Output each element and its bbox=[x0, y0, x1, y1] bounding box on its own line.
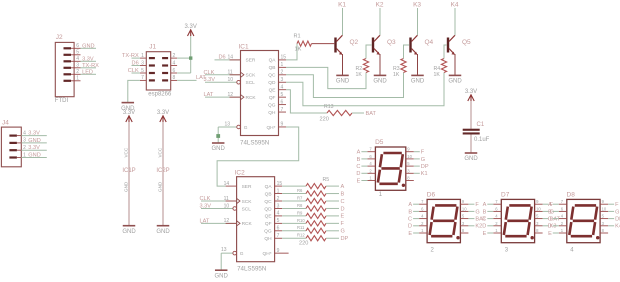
display D7 body bbox=[501, 199, 534, 242]
ground below IC2 bbox=[215, 270, 229, 279]
wire R8 to net D bbox=[326, 206, 345, 212]
svg-text:R6: R6 bbox=[297, 188, 303, 193]
svg-text:2: 2 bbox=[173, 53, 176, 59]
svg-text:6: 6 bbox=[277, 226, 280, 232]
display D7 pin B bbox=[483, 206, 502, 215]
svg-text:GND: GND bbox=[157, 181, 162, 192]
J2 pin 5 bbox=[74, 50, 80, 56]
svg-text:LAT: LAT bbox=[200, 218, 210, 224]
IC1 output pin 1 bbox=[279, 62, 287, 68]
net label K4 bbox=[451, 2, 459, 9]
IC2 output pin 2 bbox=[275, 196, 283, 202]
IC1 pin 11 SCK net CLK bbox=[204, 70, 241, 76]
svg-text:7: 7 bbox=[141, 75, 144, 81]
svg-text:A: A bbox=[357, 150, 361, 156]
svg-text:5: 5 bbox=[141, 68, 144, 74]
svg-text:D: D bbox=[548, 224, 552, 230]
wire IC2 QA to R5 bbox=[282, 185, 306, 187]
svg-text:GND: GND bbox=[82, 43, 94, 49]
display D8 pin right 8 bbox=[600, 228, 608, 233]
svg-text:A: A bbox=[408, 202, 412, 208]
svg-text:G: G bbox=[240, 251, 244, 257]
display D5 pin B bbox=[357, 154, 376, 163]
svg-text:11: 11 bbox=[228, 70, 233, 76]
svg-text:SCK: SCK bbox=[246, 73, 257, 79]
svg-text:QB: QB bbox=[265, 191, 272, 197]
svg-text:K1: K1 bbox=[338, 2, 346, 9]
resistor R7 220 bbox=[297, 195, 326, 203]
wire R4 to Q5 base bbox=[444, 45, 447, 59]
J1 pin 6 bbox=[171, 68, 177, 74]
svg-text:IC1P: IC1P bbox=[122, 168, 135, 174]
svg-text:C: C bbox=[548, 217, 552, 223]
svg-text:B: B bbox=[341, 191, 345, 197]
display D8 pin A bbox=[548, 199, 567, 208]
svg-text:F: F bbox=[421, 150, 425, 156]
IC1 output pin 3 bbox=[279, 77, 287, 83]
display D5 pin right G bbox=[406, 154, 425, 163]
svg-text:GND: GND bbox=[215, 273, 229, 279]
svg-text:QH*: QH* bbox=[266, 125, 275, 131]
header J1 esp8266 body bbox=[146, 52, 170, 90]
display D6 pin right 8 bbox=[460, 228, 468, 233]
svg-text:VCC: VCC bbox=[157, 147, 162, 157]
wire J1 pin7 to ground bbox=[128, 80, 140, 102]
svg-text:D6: D6 bbox=[132, 61, 139, 67]
svg-text:GND: GND bbox=[411, 79, 425, 85]
svg-text:4: 4 bbox=[23, 130, 26, 136]
ground at Q4 emitter bbox=[411, 75, 425, 84]
display D8 pin right F bbox=[600, 199, 619, 208]
wire collector Q4 to net K3 bbox=[417, 8, 419, 35]
svg-text:0.1uF: 0.1uF bbox=[474, 137, 490, 143]
svg-text:GND: GND bbox=[156, 229, 170, 235]
svg-text:E: E bbox=[341, 214, 345, 220]
svg-text:1K: 1K bbox=[295, 47, 302, 53]
svg-text:K2: K2 bbox=[376, 2, 384, 9]
power symbol IC2P supply 3.3V bbox=[157, 110, 169, 122]
J4 pin 4 net 3.3V bbox=[21, 130, 47, 136]
svg-text:10: 10 bbox=[228, 77, 234, 83]
svg-text:220: 220 bbox=[320, 116, 329, 122]
svg-text:220: 220 bbox=[299, 240, 308, 246]
svg-text:K3: K3 bbox=[413, 2, 421, 9]
display D7 value 3 bbox=[505, 248, 509, 254]
svg-text:3.3V: 3.3V bbox=[82, 56, 94, 62]
svg-text:Q5: Q5 bbox=[462, 39, 471, 46]
resistor R4 bbox=[434, 59, 447, 79]
svg-text:C1: C1 bbox=[477, 122, 485, 128]
svg-text:5: 5 bbox=[281, 92, 284, 98]
wire R6 to net B bbox=[326, 191, 345, 197]
svg-text:GND: GND bbox=[373, 79, 387, 85]
J1 pin 2 bbox=[171, 53, 177, 59]
svg-text:R11: R11 bbox=[297, 225, 305, 230]
IC2 pin 13 G enable bbox=[221, 247, 237, 255]
J1 pin 5 net CLK bbox=[128, 68, 146, 74]
display D5 pin right F bbox=[406, 147, 425, 156]
supply 3.3V above J1 bbox=[185, 24, 197, 36]
svg-text:CLK: CLK bbox=[128, 68, 139, 74]
capacitor C1 0.1uF bbox=[463, 101, 490, 153]
svg-text:1: 1 bbox=[141, 53, 144, 59]
J1 pin 1 net TX-RX bbox=[122, 53, 146, 59]
svg-text:K2: K2 bbox=[475, 224, 482, 230]
IC1 pin 12 RCK net LAT bbox=[204, 92, 241, 98]
IC1 pin 9 QH* bbox=[279, 122, 287, 128]
svg-text:A: A bbox=[341, 184, 345, 190]
svg-text:SER: SER bbox=[242, 184, 252, 190]
svg-text:D6: D6 bbox=[219, 55, 226, 61]
wire R13 to net BAT bbox=[352, 111, 377, 117]
svg-text:SCL: SCL bbox=[242, 206, 252, 212]
IC1 output pin 15 bbox=[279, 55, 287, 61]
svg-text:IC1: IC1 bbox=[239, 43, 250, 50]
wire IC1 QA to R1 bbox=[286, 44, 297, 60]
wire IC2 QH to R12 bbox=[282, 237, 306, 239]
svg-text:R9: R9 bbox=[297, 210, 303, 215]
net label K1 bbox=[338, 2, 346, 9]
net label K3 bbox=[413, 2, 421, 9]
wire collector Q3 to net K2 bbox=[379, 8, 381, 35]
svg-text:B: B bbox=[548, 209, 552, 215]
svg-text:C: C bbox=[341, 199, 345, 205]
svg-text:1K: 1K bbox=[393, 72, 400, 78]
wire collector Q5 to net K4 bbox=[454, 8, 456, 35]
svg-text:6: 6 bbox=[76, 43, 79, 49]
resistor R1 bbox=[294, 34, 312, 53]
connector J2 name bbox=[56, 34, 63, 41]
svg-text:R12: R12 bbox=[297, 233, 305, 238]
svg-text:SCK: SCK bbox=[242, 199, 253, 205]
resistor R9 220 bbox=[297, 210, 326, 218]
wire IC2 QB to R6 bbox=[282, 193, 306, 195]
J4 pin 2 net 3.3V bbox=[21, 145, 47, 151]
wire IC2 QD to R8 bbox=[282, 207, 306, 209]
svg-text:QA: QA bbox=[265, 184, 273, 190]
wire R5 to net A bbox=[326, 184, 345, 190]
svg-text:3.3V: 3.3V bbox=[204, 77, 216, 83]
display D5 body bbox=[375, 147, 405, 190]
IC IC1 value 74LS595N bbox=[240, 140, 269, 147]
svg-text:4: 4 bbox=[277, 211, 280, 217]
wire emitter Q5 to ground bbox=[454, 54, 456, 75]
svg-text:F: F bbox=[341, 221, 345, 227]
svg-text:RCK: RCK bbox=[246, 95, 257, 101]
IC IC1 name bbox=[239, 43, 250, 50]
IC1 output pin 5 bbox=[279, 92, 287, 98]
svg-text:E: E bbox=[483, 231, 487, 237]
display D7 pin E bbox=[483, 228, 502, 237]
svg-text:F: F bbox=[475, 202, 479, 208]
display D6 pin right F bbox=[460, 199, 479, 208]
svg-text:3.3V: 3.3V bbox=[28, 131, 40, 137]
svg-text:QF: QF bbox=[265, 221, 272, 227]
svg-text:G: G bbox=[244, 125, 248, 131]
IC1 pin 10 SCL net 3.3V bbox=[204, 77, 241, 84]
display D8 pin D bbox=[548, 221, 567, 230]
ground below IC1 bbox=[212, 143, 226, 152]
transistor Q5 bbox=[447, 35, 471, 55]
resistor stack value 220 bbox=[299, 240, 308, 246]
svg-text:LED: LED bbox=[82, 69, 93, 75]
svg-text:J1: J1 bbox=[149, 44, 156, 51]
svg-text:J2: J2 bbox=[56, 34, 63, 41]
IC2 output pin 4 bbox=[275, 211, 283, 217]
svg-text:3: 3 bbox=[76, 63, 79, 69]
svg-text:B: B bbox=[357, 157, 361, 163]
svg-text:IC2P: IC2P bbox=[156, 168, 169, 174]
svg-text:QH: QH bbox=[264, 236, 272, 242]
svg-text:R1: R1 bbox=[294, 34, 301, 40]
power symbol IC1P supply 3.3V bbox=[123, 110, 135, 122]
svg-text:esp8266: esp8266 bbox=[148, 92, 172, 98]
wire IC1 QH* to IC2 SER bbox=[217, 127, 299, 186]
display D6 pin A bbox=[408, 199, 427, 208]
svg-text:3: 3 bbox=[23, 138, 26, 144]
svg-text:QA: QA bbox=[269, 58, 277, 64]
svg-text:K1: K1 bbox=[421, 171, 428, 177]
wire IC1 G to ground bbox=[217, 127, 219, 143]
svg-text:10: 10 bbox=[224, 203, 230, 209]
display D7 pin right K3 bbox=[535, 221, 557, 230]
svg-text:2: 2 bbox=[76, 69, 79, 75]
J4 pin 1 net GND bbox=[21, 152, 47, 158]
IC1 output pin 7 bbox=[279, 107, 287, 113]
wire emitter Q3 to ground bbox=[379, 54, 381, 75]
svg-text:QF: QF bbox=[269, 95, 276, 101]
ground at Q5 emitter bbox=[448, 75, 462, 84]
wire IC2 QC to R7 bbox=[282, 200, 306, 202]
svg-text:3.3V: 3.3V bbox=[200, 203, 212, 209]
header J1 name bbox=[149, 44, 156, 51]
svg-text:1: 1 bbox=[277, 188, 280, 194]
svg-text:11: 11 bbox=[224, 196, 229, 202]
svg-text:G: G bbox=[341, 229, 345, 235]
svg-text:7: 7 bbox=[281, 107, 284, 113]
display D5 value 1 bbox=[379, 192, 383, 198]
svg-text:TX-RX: TX-RX bbox=[82, 63, 99, 69]
svg-text:K4: K4 bbox=[451, 2, 459, 9]
J2 pin 4 net 3.3V bbox=[74, 56, 96, 62]
svg-text:5: 5 bbox=[277, 218, 280, 224]
svg-text:QB: QB bbox=[269, 65, 276, 71]
svg-text:QD: QD bbox=[268, 80, 276, 86]
display D7 pin right G bbox=[535, 206, 554, 215]
svg-text:1: 1 bbox=[76, 76, 79, 82]
wire IC1 QC to R3 bbox=[286, 73, 404, 98]
svg-text:G: G bbox=[421, 157, 425, 163]
svg-text:C: C bbox=[408, 217, 412, 223]
IC1 pin 14 SER net D6 bbox=[215, 55, 241, 61]
resistor R13 220 bbox=[320, 104, 352, 122]
IC2 pin 12 RCK net LAT bbox=[200, 218, 237, 224]
wire IC2 QE to R9 bbox=[282, 215, 306, 217]
svg-text:GND: GND bbox=[212, 146, 226, 152]
IC2 pin 9 QH* bbox=[275, 248, 289, 254]
svg-text:CLK: CLK bbox=[204, 70, 215, 76]
IC2 pin 11 SCK net CLK bbox=[200, 196, 237, 202]
svg-text:9: 9 bbox=[277, 248, 280, 254]
J2 pin 2 net LED bbox=[74, 69, 96, 75]
svg-text:E: E bbox=[548, 231, 552, 237]
svg-text:GND: GND bbox=[336, 79, 350, 85]
resistor R10 220 bbox=[297, 218, 326, 226]
wire IC1 QB to R2 bbox=[286, 67, 366, 88]
connector J4 name bbox=[2, 119, 9, 126]
display D8 name bbox=[567, 192, 576, 199]
svg-text:A: A bbox=[548, 202, 552, 208]
display D6 pin right BAT bbox=[460, 214, 486, 223]
ground below C1 bbox=[464, 153, 478, 162]
display D6 body bbox=[427, 199, 460, 242]
wire R3 to Q4 base bbox=[404, 45, 410, 59]
svg-text:QD: QD bbox=[264, 206, 272, 212]
display D8 pin C bbox=[548, 214, 567, 223]
svg-text:D: D bbox=[408, 224, 412, 230]
svg-text:15: 15 bbox=[281, 55, 287, 61]
svg-text:D5: D5 bbox=[375, 139, 384, 146]
svg-text:12: 12 bbox=[228, 92, 234, 98]
wire IC2 QG to R11 bbox=[282, 230, 306, 232]
svg-text:GND: GND bbox=[122, 229, 136, 235]
wire R9 to net E bbox=[326, 214, 345, 220]
wire R7 to net C bbox=[326, 199, 345, 205]
svg-text:10: 10 bbox=[536, 206, 541, 211]
connector J4 body bbox=[1, 127, 21, 167]
net label K2 bbox=[376, 2, 384, 9]
svg-text:4: 4 bbox=[76, 56, 79, 62]
svg-text:QG: QG bbox=[268, 102, 276, 108]
svg-text:CLK: CLK bbox=[200, 196, 211, 202]
display D6 pin right G bbox=[460, 206, 479, 215]
J2 pin 3 net TX-RX bbox=[74, 63, 99, 69]
svg-text:4: 4 bbox=[281, 85, 284, 91]
svg-text:7: 7 bbox=[277, 233, 280, 239]
power symbol IC2P rail bbox=[156, 122, 169, 226]
connector J2 FTDI body bbox=[55, 42, 74, 96]
display D8 body bbox=[567, 199, 600, 242]
svg-text:LAT: LAT bbox=[204, 92, 214, 98]
svg-text:10: 10 bbox=[407, 154, 412, 159]
svg-text:DP: DP bbox=[615, 217, 620, 223]
svg-text:15: 15 bbox=[277, 181, 283, 187]
power symbol IC2P ground bbox=[156, 226, 170, 235]
svg-text:GND: GND bbox=[28, 153, 40, 159]
display D6 pin right K2 bbox=[460, 221, 482, 230]
svg-text:B: B bbox=[408, 209, 412, 215]
J1 pin 8 bbox=[171, 75, 177, 81]
wire emitter Q4 to ground bbox=[417, 54, 419, 75]
display D8 pin right K4 bbox=[600, 221, 620, 230]
power symbol IC1P rail bbox=[122, 122, 135, 226]
svg-text:FTDI: FTDI bbox=[55, 98, 69, 104]
svg-text:R13: R13 bbox=[324, 104, 334, 110]
svg-text:R5: R5 bbox=[323, 177, 330, 183]
transistor Q2 bbox=[334, 35, 358, 55]
IC2 output pin 15 bbox=[275, 181, 283, 187]
display D6 pin E bbox=[408, 228, 427, 237]
svg-text:QC: QC bbox=[268, 73, 276, 79]
IC2 output pin 1 bbox=[275, 188, 283, 194]
svg-text:GND: GND bbox=[448, 79, 462, 85]
display D8 value 4 bbox=[570, 248, 574, 254]
svg-text:E: E bbox=[408, 231, 412, 237]
svg-text:TX-RX: TX-RX bbox=[122, 53, 139, 59]
wire emitter Q2 to ground bbox=[342, 54, 344, 75]
svg-text:QE: QE bbox=[269, 88, 276, 94]
IC2 output pin 5 bbox=[275, 218, 283, 224]
svg-text:SCL: SCL bbox=[246, 80, 256, 86]
display D5 pin right 8 bbox=[406, 176, 414, 181]
wire IC1 QE to R13 bbox=[286, 90, 327, 113]
display D6 pin C bbox=[408, 214, 427, 223]
IC2 pin 10 SCL net 3.3V bbox=[200, 203, 237, 210]
transistor Q4 bbox=[409, 35, 433, 55]
svg-text:QH*: QH* bbox=[263, 251, 272, 257]
display D5 pin A bbox=[357, 147, 376, 156]
svg-text:QG: QG bbox=[264, 229, 272, 235]
display D8 pin right G bbox=[600, 206, 619, 215]
display D6 value 2 bbox=[431, 248, 435, 254]
J2 pin 1 bbox=[74, 76, 80, 82]
svg-text:12: 12 bbox=[224, 218, 230, 224]
display D7 pin right 8 bbox=[535, 228, 543, 233]
svg-text:GND: GND bbox=[28, 138, 40, 144]
resistor R5 220 bbox=[306, 177, 329, 189]
wire J1 pin8 net LAT bbox=[177, 75, 206, 81]
svg-text:1K: 1K bbox=[434, 72, 441, 78]
svg-text:74LS595N: 74LS595N bbox=[240, 140, 269, 147]
svg-text:D: D bbox=[341, 206, 345, 212]
wire IC2 G to ground bbox=[220, 253, 222, 270]
display D6 pin B bbox=[408, 206, 427, 215]
svg-text:1K: 1K bbox=[356, 72, 363, 78]
svg-text:2: 2 bbox=[277, 196, 280, 202]
svg-text:1: 1 bbox=[23, 152, 26, 158]
supply 3.3V above C1 bbox=[465, 89, 477, 101]
svg-text:J4: J4 bbox=[2, 119, 9, 126]
svg-text:13: 13 bbox=[225, 122, 231, 128]
display D5 pin E bbox=[357, 176, 376, 185]
svg-text:C: C bbox=[356, 164, 360, 170]
wire R2 to Q3 base bbox=[366, 45, 372, 59]
display D7 name bbox=[501, 192, 510, 199]
ground at Q3 emitter bbox=[373, 75, 387, 84]
svg-text:2: 2 bbox=[23, 145, 26, 151]
wire R12 to net DP bbox=[326, 236, 349, 242]
svg-text:6: 6 bbox=[281, 99, 284, 105]
svg-text:G: G bbox=[475, 209, 479, 215]
svg-text:IC2: IC2 bbox=[235, 170, 246, 177]
resistor R2 bbox=[356, 59, 369, 79]
svg-text:R8: R8 bbox=[297, 203, 303, 208]
svg-text:QC: QC bbox=[264, 199, 272, 205]
ground at Q2 emitter bbox=[336, 75, 350, 84]
svg-text:VCC: VCC bbox=[123, 147, 128, 157]
svg-text:DP: DP bbox=[421, 164, 429, 170]
IC IC2 value 74LS595N bbox=[237, 266, 266, 273]
svg-text:K4: K4 bbox=[615, 224, 620, 230]
svg-text:C: C bbox=[482, 217, 486, 223]
resistor R3 bbox=[393, 59, 406, 79]
J1 pin 3 net D6 bbox=[132, 60, 147, 66]
display D5 pin D bbox=[356, 168, 375, 177]
op IC2 74LS595N body bbox=[237, 177, 275, 262]
svg-text:9: 9 bbox=[281, 122, 284, 128]
display D6 name bbox=[427, 192, 436, 199]
svg-text:3.3V: 3.3V bbox=[28, 145, 40, 151]
